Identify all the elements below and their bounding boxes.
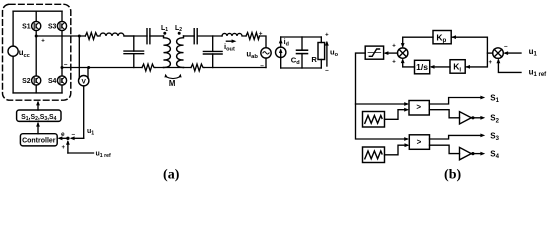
block 1/s — [415, 60, 430, 74]
wire comparator2 output Q — [430, 135, 482, 139]
comparator box 2 — [409, 135, 429, 150]
svg-text:L2: L2 — [175, 25, 182, 33]
L2 polarity dot — [178, 32, 181, 35]
current source id — [276, 37, 289, 68]
arrowhead into comparator2 top — [404, 137, 409, 141]
svg-text:>: > — [417, 138, 422, 147]
resistor bottom primary — [142, 64, 155, 71]
svg-text:Controller: Controller — [22, 138, 56, 145]
mutual coupling M arrow — [164, 74, 181, 88]
wire S1 to node A — [35, 31, 37, 36]
arrow S2 — [475, 114, 500, 125]
transistor S4 — [48, 68, 67, 93]
svg-text:V: V — [81, 78, 86, 85]
svg-text:1/s: 1/s — [416, 62, 428, 72]
AC source uab — [246, 32, 271, 70]
block Kp — [433, 31, 451, 45]
capacitor Cd — [291, 37, 308, 68]
current iout arrow — [224, 39, 236, 52]
svg-text:id: id — [284, 37, 289, 48]
arrowhead into comparator1 top — [404, 102, 409, 106]
inverter dashed enclosure — [3, 4, 71, 100]
capacitor primary parallel — [124, 36, 144, 68]
resistor bottom secondary — [191, 64, 204, 71]
svg-text:u1 ref: u1 ref — [529, 67, 548, 78]
svg-text:S4: S4 — [48, 78, 57, 85]
voltage source Ucc — [8, 11, 30, 93]
wire tap comparator1 — [356, 103, 408, 105]
arrow sum to saturation — [384, 51, 398, 55]
arrow gates to bridge — [36, 101, 40, 110]
svg-text:+: + — [392, 60, 396, 66]
resistor primary series — [85, 33, 98, 40]
svg-text:ucc: ucc — [19, 48, 30, 59]
svg-text:Kp: Kp — [436, 32, 446, 44]
wire feedback vertical — [451, 37, 487, 67]
logic inverter 1 — [460, 112, 475, 124]
controller box — [20, 134, 57, 146]
svg-text:u1: u1 — [529, 47, 538, 58]
wire top DC rail — [13, 10, 62, 12]
svg-text:(b): (b) — [444, 167, 461, 182]
arrow u1ref into right sum — [497, 58, 548, 78]
svg-text:+: + — [259, 32, 263, 38]
svg-text:Ki: Ki — [453, 62, 461, 74]
svg-text:S1: S1 — [22, 24, 31, 31]
svg-text:S3: S3 — [48, 24, 57, 31]
wire u1 sense — [83, 86, 85, 138]
svg-text:–: – — [260, 62, 264, 69]
wire Kp to sum — [401, 37, 433, 48]
sawtooth generator 2 — [363, 147, 385, 163]
wire bottom output — [62, 67, 142, 69]
node A junction — [35, 35, 38, 38]
svg-text:(a): (a) — [163, 167, 180, 182]
junction top tap — [78, 35, 81, 38]
svg-text:>: > — [416, 103, 421, 112]
wire load loop top — [281, 36, 322, 38]
wire modulation main — [356, 53, 408, 139]
inductor L2 winding — [177, 36, 184, 68]
transistor S1 — [22, 11, 41, 30]
wire bottom mid — [155, 67, 191, 69]
svg-text:u1 ref: u1 ref — [96, 151, 112, 160]
svg-text:–: – — [72, 131, 76, 138]
wire comparator1 output to inverter1 — [429, 110, 459, 118]
wire bottom DC rail — [13, 92, 62, 94]
arrow Ki to 1/s — [430, 65, 450, 69]
voltmeter V — [79, 36, 89, 86]
svg-text:u1: u1 — [87, 128, 94, 137]
svg-text:+: + — [392, 44, 396, 50]
resistor R load — [311, 37, 324, 68]
transistor S3 — [48, 11, 67, 30]
wire sawtooth2 to comparator2 — [385, 143, 410, 155]
svg-text:+: + — [41, 39, 45, 45]
svg-text:S2: S2 — [22, 78, 31, 85]
wire top output — [36, 35, 85, 37]
svg-text:+: + — [489, 60, 493, 66]
wire comparator2 output to inverter2 — [430, 145, 460, 153]
comparator box 1 — [409, 101, 429, 116]
svg-text:+: + — [325, 33, 329, 39]
capacitor secondary parallel — [203, 36, 222, 68]
arrow u1ref into junction — [62, 140, 70, 153]
arrowhead into Kp — [451, 35, 456, 39]
svg-text:–: – — [504, 43, 508, 50]
block Ki — [450, 60, 465, 74]
summing junction right — [489, 43, 508, 66]
logic inverter 2 — [460, 147, 475, 159]
inductor secondary series — [222, 33, 246, 36]
resistor secondary series — [246, 33, 260, 40]
svg-text:Cd: Cd — [291, 56, 300, 67]
arrowhead S1 — [480, 96, 485, 100]
arrow e into controller — [58, 131, 68, 140]
wire u1ref — [68, 152, 94, 154]
arrowhead S3 — [480, 134, 485, 138]
wire comparator1 output Q — [429, 98, 481, 105]
transistor S2 — [22, 36, 41, 93]
svg-text:S2: S2 — [490, 114, 499, 125]
inductor primary series — [98, 33, 133, 36]
capacitor secondary series — [194, 29, 222, 44]
output voltage uo arrow — [325, 33, 339, 74]
svg-text:S3: S3 — [490, 132, 499, 143]
wire right sum to vertical — [487, 52, 492, 54]
svg-text:uab: uab — [246, 49, 258, 60]
svg-text:S1: S1 — [490, 93, 499, 104]
node B junction — [61, 66, 64, 69]
svg-text:R: R — [311, 55, 317, 64]
svg-text:iout: iout — [224, 42, 235, 53]
wire S3 to node B — [61, 31, 63, 68]
arrow S4 — [475, 149, 500, 160]
wire secondary top — [184, 35, 195, 37]
summing junction left — [392, 44, 408, 66]
wire sawtooth1 to comparator1 — [385, 108, 410, 120]
svg-text:uo: uo — [330, 47, 339, 58]
arrow u1 into right sum — [503, 47, 537, 58]
svg-text:e: e — [61, 131, 65, 138]
L1 polarity dot — [163, 32, 166, 35]
error junction — [66, 137, 69, 140]
arrow controller to gates — [36, 122, 40, 134]
sawtooth generator 1 — [363, 112, 385, 128]
wire to series cap — [124, 35, 147, 37]
wire 1/s to sum — [401, 58, 415, 67]
svg-text:S4: S4 — [490, 149, 499, 160]
inductor L1 winding — [164, 36, 171, 68]
arrowhead into Ki — [465, 65, 470, 69]
wire to uab — [260, 36, 267, 48]
svg-text:+: + — [62, 145, 66, 151]
wire load loop bottom — [281, 67, 322, 69]
svg-text:–: – — [325, 67, 329, 74]
gate signal box S1..S4 — [17, 110, 61, 122]
wire bottom to uab — [204, 67, 266, 69]
capacitor primary series — [147, 29, 164, 44]
svg-text:M: M — [169, 79, 176, 88]
arrow u1 into junction — [70, 131, 84, 140]
saturation block — [365, 46, 383, 59]
junction V tap — [87, 66, 90, 69]
